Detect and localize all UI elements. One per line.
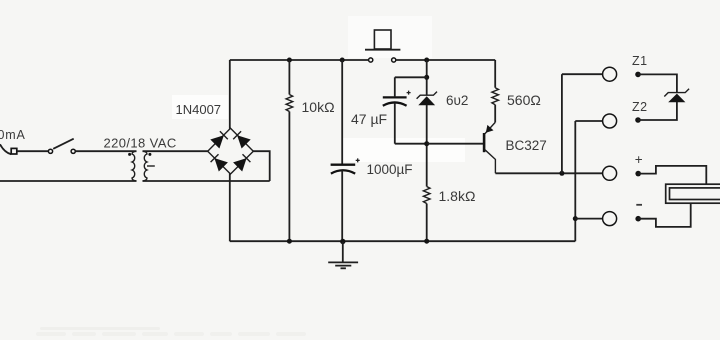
svg-text:Z2: Z2 xyxy=(632,100,648,114)
pushbutton S2 cap box xyxy=(374,30,391,49)
svg-text:Z1: Z1 xyxy=(632,54,648,68)
wire zener branch top xyxy=(426,60,428,95)
fuse terminal square xyxy=(11,148,17,154)
node dot base/zener/47uF/1.8k xyxy=(424,141,429,146)
wire top rail right section xyxy=(396,59,495,61)
transistor Q1 collector line xyxy=(485,150,495,174)
svg-text:220/18 VAC: 220/18 VAC xyxy=(104,136,177,151)
node dot top rail / 1000uF xyxy=(340,58,345,63)
wire 560 to emitter xyxy=(494,105,496,123)
zener diode ZD1 6v2 triangle xyxy=(418,96,435,105)
svg-text:1000µF: 1000µF xyxy=(367,162,413,177)
resistor R3 1.8k zigzag xyxy=(423,187,430,204)
wire primary bottom return to left edge xyxy=(0,180,137,182)
bridge rectifier D1-D4 diamond xyxy=(208,128,254,174)
terminal post plus xyxy=(603,166,617,180)
svg-text:6υ2: 6υ2 xyxy=(446,93,468,108)
wire Z1 bus to Z1 terminal xyxy=(562,73,603,75)
resistor R1 10k zigzag xyxy=(286,95,293,112)
wire 1000uF branch lower xyxy=(341,171,343,242)
svg-text:BC327: BC327 xyxy=(506,138,547,153)
capacitor C1 47uF top plate xyxy=(383,96,407,98)
node dot external Z2 xyxy=(635,117,641,123)
wire bridge + up to top rail xyxy=(229,60,231,129)
bridge diode lower-left (triangle+bar) xyxy=(211,154,228,171)
wire bridge - down to bottom rail xyxy=(229,174,231,242)
node dot 47uF/zener top xyxy=(424,75,429,80)
wire zener to base node xyxy=(426,105,428,187)
wire Z2 bus to Z2 terminal xyxy=(575,120,602,122)
wire 47uF branch lower xyxy=(394,103,396,144)
wire 1000uF branch upper xyxy=(341,60,343,164)
transformer T1 secondary center tap stub xyxy=(147,165,155,167)
capacitor C2 1000uF top plate xyxy=(331,164,356,166)
node dot minus row on Z2 bus xyxy=(573,216,578,221)
wire 10k branch upper xyxy=(288,60,290,95)
wire top link 47uF to zener branch xyxy=(395,76,427,78)
wire top rail left section xyxy=(230,59,369,61)
transistor Q1 emitter arrow (PNP) xyxy=(486,125,494,133)
wire 47uF branch upper xyxy=(394,77,396,96)
terminal post Z1 xyxy=(603,67,617,81)
zener diode ZD1 6v2 bar with bent ends xyxy=(417,92,437,99)
wire fuse to switch xyxy=(17,150,49,152)
wire Z2 bus vertical xyxy=(574,121,576,241)
switch SW1 lever xyxy=(53,139,73,149)
svg-text:0mA: 0mA xyxy=(0,128,26,142)
node dot top rail / 10k xyxy=(287,58,292,63)
wire secondary bottom to corner xyxy=(143,180,270,182)
wire minus to battery bottom xyxy=(638,203,691,227)
node dot external plus xyxy=(635,171,641,177)
svg-text:47 µF: 47 µF xyxy=(351,111,387,127)
transistor Q1 base bar xyxy=(483,133,486,152)
wire switch to transformer primary xyxy=(75,150,136,152)
transformer T1 secondary winding xyxy=(143,151,148,181)
wire 1.8k lower xyxy=(426,204,428,242)
wire secondary top to bridge AC left xyxy=(143,150,208,152)
label minus xyxy=(636,204,642,206)
wire external zener to Z2 xyxy=(638,102,677,120)
capacitor C2 1000uF bottom plate (curved) xyxy=(331,170,355,173)
battery pack inner shell xyxy=(670,188,720,200)
bridge diode lower-right (triangle+bar) xyxy=(233,154,250,171)
external zener ZD2 triangle xyxy=(668,94,685,103)
transistor Q1 emitter line xyxy=(485,122,495,133)
svg-text:1N4007: 1N4007 xyxy=(176,102,222,117)
terminal post Z2 xyxy=(603,114,617,128)
svg-text:560Ω: 560Ω xyxy=(507,92,541,108)
battery pack outer shell xyxy=(666,184,720,203)
node dot top rail / zener branch xyxy=(424,58,429,63)
wire 560 branch upper xyxy=(494,60,496,88)
bridge diode upper-left (triangle+bar) xyxy=(210,131,228,148)
node dot bottom rail / 10k xyxy=(287,239,292,244)
wire bottom rail xyxy=(230,240,576,242)
transformer T1 primary phase dot xyxy=(128,153,131,156)
pushbutton S2 left terminal xyxy=(369,58,373,62)
node dot collector/Z1 bus xyxy=(559,171,564,176)
resistor R2 560 zigzag xyxy=(492,88,499,105)
ground bar 1 xyxy=(328,261,358,263)
node dot external Z1 xyxy=(635,72,641,78)
svg-text:10kΩ: 10kΩ xyxy=(302,99,335,115)
transformer T1 primary winding xyxy=(132,151,137,181)
switch SW1 left contact xyxy=(48,149,52,153)
wire collector to plus terminal xyxy=(495,172,602,174)
capacitor C1 47uF bottom plate (curved) xyxy=(383,102,407,105)
ground bar 3 xyxy=(341,267,346,269)
capacitor C2 1000uF plus mark xyxy=(356,158,360,162)
bridge diode upper-right (triangle+bar) xyxy=(233,131,251,148)
wire plus to battery top xyxy=(638,166,706,184)
pushbutton S2 right terminal xyxy=(392,58,396,62)
wire base node to transistor xyxy=(427,143,484,145)
wire bottom link 47uF to zener xyxy=(395,143,427,145)
node dot external minus xyxy=(635,216,641,222)
wire 10k branch lower xyxy=(288,112,290,242)
svg-text:+: + xyxy=(635,152,643,167)
wire minus row to minus terminal xyxy=(575,218,602,220)
external zener ZD2 bar with bent ends xyxy=(664,89,689,97)
pushbutton S2 actuator bar xyxy=(365,49,400,51)
node dot bottom rail / ground xyxy=(340,239,345,244)
svg-text:1.8kΩ: 1.8kΩ xyxy=(439,188,476,204)
terminal post minus xyxy=(603,212,617,226)
capacitor C1 47uF plus mark xyxy=(407,91,411,95)
node dot bottom rail / 1.8k xyxy=(424,239,429,244)
switch SW1 right contact xyxy=(71,149,75,153)
wire Z1 bus vertical xyxy=(561,74,563,173)
ground stub xyxy=(342,242,344,262)
fuse F1 lead (clipped at left edge) xyxy=(0,144,11,154)
wire corner up to bridge AC right xyxy=(253,151,270,181)
wire Z1 to external zener xyxy=(638,74,677,92)
ground bar 2 xyxy=(335,265,351,267)
transformer T1 secondary phase dot xyxy=(148,153,151,156)
